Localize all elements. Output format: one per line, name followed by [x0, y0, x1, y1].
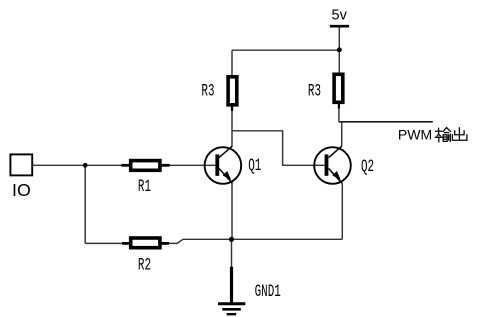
svg-text:R2: R2 — [138, 256, 151, 275]
svg-text:Q2: Q2 — [361, 158, 374, 177]
svg-text:R1: R1 — [138, 178, 151, 197]
svg-text:PWM: PWM — [398, 127, 432, 143]
svg-text:GND1: GND1 — [255, 283, 281, 302]
svg-text:R3: R3 — [201, 82, 214, 101]
svg-text:IO: IO — [12, 180, 31, 200]
svg-text:5v: 5v — [332, 8, 348, 24]
svg-text:R3: R3 — [308, 82, 321, 101]
svg-text:Q1: Q1 — [248, 157, 261, 176]
